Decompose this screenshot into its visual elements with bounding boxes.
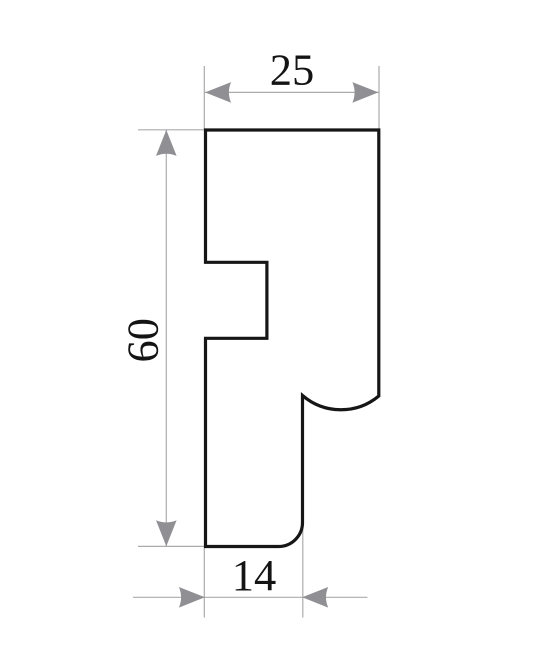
extension line 25 left: [203, 66, 205, 129]
extension line 25 right: [378, 66, 380, 129]
arrow 25 right: [352, 82, 378, 103]
svg-text:25: 25: [270, 45, 315, 95]
extension line 60 top: [138, 129, 205, 131]
dimension line 60: [165, 130, 167, 547]
svg-text:14: 14: [232, 550, 277, 600]
arrow 14 right: [302, 587, 328, 608]
profile outline: [206, 130, 379, 547]
arrow 60 bottom: [156, 520, 177, 546]
arrow 60 top: [156, 130, 177, 156]
arrow 14 left: [179, 587, 205, 608]
dimension line 14: [133, 596, 367, 598]
extension line 14 right: [302, 525, 304, 618]
dimension line 25: [204, 91, 379, 93]
extension line 14 left: [203, 548, 205, 618]
extension line 60 bottom: [138, 545, 205, 547]
svg-text:60: 60: [118, 318, 168, 363]
arrow 25 left: [205, 82, 231, 103]
